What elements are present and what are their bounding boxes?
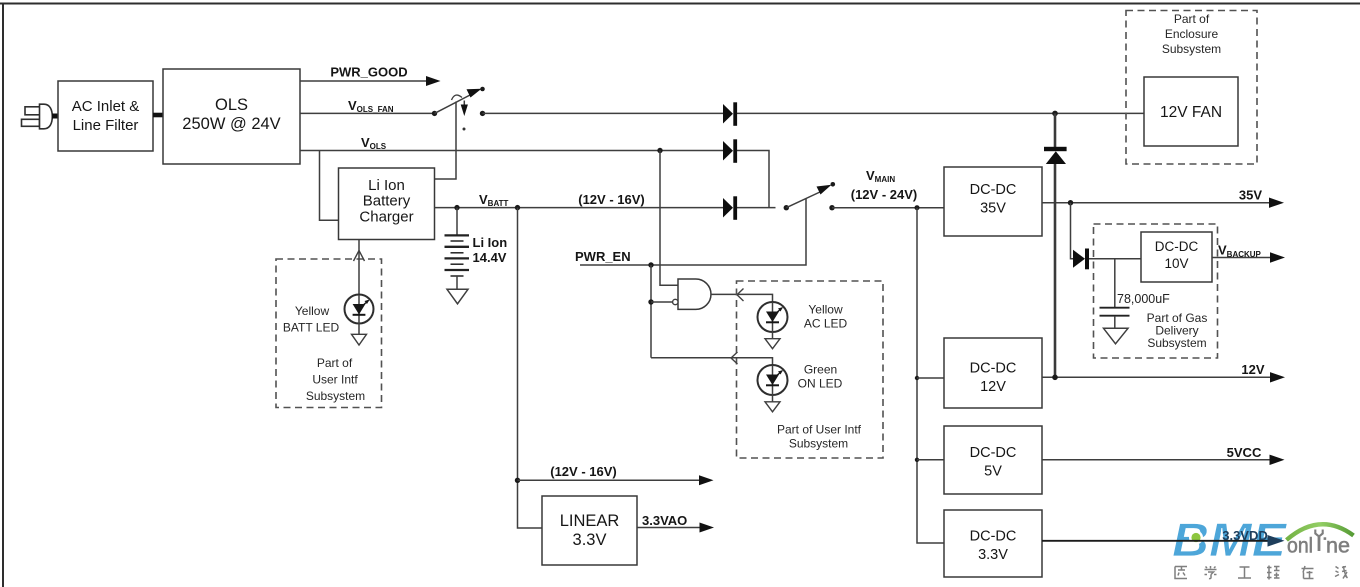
svg-text:PWR_GOOD: PWR_GOOD bbox=[330, 65, 407, 80]
switch S2 pivot node bbox=[784, 205, 789, 210]
node gate input 2 tap bbox=[648, 299, 653, 304]
inverter bubble on gate input 2 bbox=[673, 299, 678, 304]
svg-text:5VCC: 5VCC bbox=[1227, 445, 1262, 460]
svg-text:Charger: Charger bbox=[359, 209, 413, 226]
svg-text:14.4V: 14.4V bbox=[473, 250, 507, 265]
wire to gate input 2 bbox=[651, 301, 673, 303]
switch S1 blade bbox=[435, 95, 472, 114]
dashed box AC/ON LED Part of User Intf Subsystem bbox=[737, 281, 884, 458]
ground below battery bbox=[447, 289, 468, 304]
wire battery to ground bbox=[456, 276, 458, 289]
svg-text:(12V - 16V): (12V - 16V) bbox=[578, 192, 644, 207]
svg-text:LINEAR: LINEAR bbox=[560, 512, 620, 530]
svg-text:12V FAN: 12V FAN bbox=[1160, 104, 1222, 121]
wire charger to BATT LED bbox=[358, 240, 360, 295]
svg-text:35V: 35V bbox=[1239, 188, 1262, 203]
wire diode to DC-DC 10V bbox=[1089, 258, 1141, 260]
wire ON LED to ground bbox=[772, 395, 774, 402]
node PWR_EN tap bbox=[648, 262, 653, 267]
box DC-DC 5V bbox=[944, 426, 1042, 494]
box DC-DC 12V bbox=[944, 338, 1042, 408]
svg-text:3.3V: 3.3V bbox=[573, 531, 607, 549]
box AC Inlet & Line Filter bbox=[58, 81, 153, 151]
ground below ON LED bbox=[765, 402, 780, 412]
dashed box Yellow BATT LED / Part of User Intf Subsystem bbox=[276, 259, 382, 408]
node bus T bbox=[915, 205, 920, 210]
wire V_MAIN bbox=[832, 207, 944, 209]
direction arrow (down) at switch S1 bbox=[463, 101, 465, 106]
svg-text:PWR_EN: PWR_EN bbox=[575, 249, 631, 264]
svg-text:3.3VDD: 3.3VDD bbox=[1222, 528, 1268, 543]
battery BT1 Li Ion 14.4V bbox=[445, 208, 470, 276]
svg-text:AC Inlet &: AC Inlet & bbox=[72, 98, 140, 115]
svg-text:Part of: Part of bbox=[317, 356, 353, 370]
AC plug icon bbox=[22, 104, 53, 129]
svg-text:Subsystem: Subsystem bbox=[306, 389, 365, 403]
box 12V FAN bbox=[1144, 77, 1238, 146]
wire filter to OLS (thick) bbox=[153, 113, 163, 118]
speck node below arrow bbox=[463, 128, 466, 131]
svg-text:DC-DC: DC-DC bbox=[970, 445, 1017, 461]
svg-text:DC-DC: DC-DC bbox=[970, 361, 1017, 377]
svg-text:78,000uF: 78,000uF bbox=[1117, 292, 1170, 306]
wire gate output to Yellow AC LED bbox=[711, 294, 773, 302]
LED ON (green) bbox=[758, 365, 788, 395]
wire V_BATT down to LINEAR bbox=[518, 208, 543, 528]
wire 35V output bbox=[1042, 202, 1270, 204]
node bus 12V stub bbox=[915, 376, 919, 380]
diode D4 (vertical, to fan) bbox=[1044, 147, 1067, 164]
wire V_OLS to charger input bbox=[320, 151, 340, 221]
svg-text:10V: 10V bbox=[1164, 256, 1188, 271]
wire V_OLS bbox=[300, 151, 769, 208]
svg-text:Enclosure: Enclosure bbox=[1165, 27, 1219, 41]
node V_MAIN start bbox=[829, 205, 834, 210]
node bus 5V stub bbox=[915, 458, 919, 462]
node 35V backup tap bbox=[1068, 200, 1073, 205]
wire thick 12V-to-fan riser bbox=[1054, 113, 1057, 377]
wire 5VCC output bbox=[1042, 459, 1270, 461]
switch S2 blade bbox=[786, 192, 821, 208]
LED AC (yellow) bbox=[758, 302, 788, 332]
svg-text:Subsystem: Subsystem bbox=[789, 437, 848, 451]
chevron up into charger bbox=[354, 251, 365, 262]
svg-text:Subsystem: Subsystem bbox=[1147, 336, 1206, 350]
svg-text:12V: 12V bbox=[1241, 362, 1264, 377]
svg-text:User Intf: User Intf bbox=[312, 373, 358, 387]
wire AC LED to ground bbox=[772, 332, 774, 339]
wire 3.3VAO output bbox=[637, 527, 700, 529]
svg-text:DC-DC: DC-DC bbox=[970, 529, 1017, 545]
svg-text:250W @ 24V: 250W @ 24V bbox=[182, 115, 280, 133]
arrow PWR_GOOD bbox=[426, 76, 441, 86]
ground below capacitor bbox=[1104, 328, 1129, 344]
svg-text:Part of User Intf: Part of User Intf bbox=[777, 423, 862, 437]
node after switch S1 bbox=[480, 111, 485, 116]
svg-text:3.3VAO: 3.3VAO bbox=[642, 513, 687, 528]
wire stub to DC-DC 12V bbox=[917, 377, 944, 379]
box DC-DC 10V bbox=[1141, 232, 1212, 282]
svg-text:BATT LED: BATT LED bbox=[283, 321, 340, 335]
svg-text:12V: 12V bbox=[980, 379, 1006, 395]
node fan junction bbox=[1052, 111, 1058, 117]
chinese caption 医学工程在线 bbox=[1175, 566, 1348, 580]
node (12V-16V) branch bbox=[515, 478, 520, 483]
wire V_OLS_FAN to fan (through diode) bbox=[483, 112, 1145, 114]
wire PWR_EN bbox=[580, 199, 806, 266]
wire LED to ground bbox=[358, 324, 360, 335]
wire (12V - 16V) lower branch bbox=[518, 479, 701, 481]
LED BATT (yellow) bbox=[345, 295, 374, 324]
diode D3 bbox=[723, 196, 737, 220]
svg-text:Li Ion: Li Ion bbox=[368, 177, 405, 194]
svg-text:(12V - 16V): (12V - 16V) bbox=[550, 464, 616, 479]
dashed box Part of Enclosure Subsystem bbox=[1126, 11, 1257, 165]
wire stub to DC-DC 5V bbox=[917, 459, 944, 461]
capacitor C1 78,000uF bbox=[1100, 259, 1130, 328]
wire plug to line filter (thick cord) bbox=[52, 114, 59, 119]
diode D2 bbox=[723, 139, 737, 163]
svg-text:Battery: Battery bbox=[363, 193, 411, 210]
svg-text:AC LED: AC LED bbox=[804, 317, 848, 331]
svg-text:onl: onl bbox=[1287, 535, 1313, 558]
svg-text:Part of: Part of bbox=[1174, 12, 1210, 26]
svg-text:ne: ne bbox=[1326, 535, 1350, 558]
wire V_BATT bus bbox=[435, 207, 776, 209]
svg-text:3.3V: 3.3V bbox=[978, 547, 1008, 563]
ground below BATT LED bbox=[352, 334, 367, 345]
svg-text:Yellow: Yellow bbox=[808, 303, 843, 317]
svg-text:Green: Green bbox=[804, 363, 837, 377]
svg-text:DC-DC: DC-DC bbox=[1155, 239, 1199, 254]
wire 35V tap down to backup diode bbox=[1071, 203, 1074, 259]
box LINEAR 3.3V bbox=[542, 496, 637, 565]
switch S1 blade tip node bbox=[480, 87, 485, 92]
wire 12V output bbox=[1042, 376, 1271, 378]
wire blade to charger top input bbox=[434, 102, 456, 180]
diode D5 bbox=[1073, 249, 1089, 270]
wire V_BACKUP output bbox=[1212, 257, 1271, 259]
svg-text:35V: 35V bbox=[980, 201, 1006, 217]
wire PWR_EN branch to Green ON LED bbox=[651, 358, 773, 365]
box DC-DC 35V bbox=[944, 167, 1042, 236]
box Li Ion Battery Charger bbox=[339, 168, 435, 240]
switch S2 blade tip node bbox=[831, 182, 836, 187]
wire DC-DC input bus bbox=[917, 208, 944, 543]
wire V_OLS_FAN from OLS bbox=[300, 112, 434, 114]
ground below AC LED bbox=[765, 339, 780, 349]
node 12V fan tap bbox=[1052, 375, 1058, 381]
svg-text:Yellow: Yellow bbox=[295, 304, 330, 318]
wire V_OLS sense to AND gate input 1 bbox=[660, 151, 678, 286]
node LINEAR tap bbox=[515, 205, 520, 210]
curl tick where charger sense wire meets blade bbox=[452, 95, 463, 100]
svg-text:DC-DC: DC-DC bbox=[970, 182, 1017, 198]
chevron into subsystem (ON LED) bbox=[731, 352, 738, 364]
svg-text:5V: 5V bbox=[984, 464, 1002, 480]
svg-text:ON LED: ON LED bbox=[798, 377, 843, 391]
svg-text:OLS: OLS bbox=[215, 96, 248, 114]
diode D1 bbox=[723, 102, 737, 126]
svg-text:Subsystem: Subsystem bbox=[1162, 42, 1221, 56]
AND gate U1 bbox=[678, 279, 711, 309]
wire 3.3VDD output over logo bbox=[1042, 540, 1268, 542]
wire PWR_GOOD bbox=[300, 80, 427, 82]
svg-text:Li Ion: Li Ion bbox=[473, 235, 508, 250]
box OLS 250W @ 24V bbox=[163, 69, 300, 164]
node battery tap bbox=[454, 205, 459, 210]
switch S1 pivot node bbox=[432, 111, 437, 116]
svg-text:Line Filter: Line Filter bbox=[73, 117, 139, 134]
wire PWR_EN down to gate/LED bbox=[650, 265, 652, 358]
svg-text:(12V - 24V): (12V - 24V) bbox=[851, 187, 917, 202]
box DC-DC 3.3V bbox=[944, 510, 1042, 577]
node V_OLS sense tap bbox=[657, 148, 662, 153]
chevron into subsystem (AC LED) bbox=[737, 289, 744, 302]
dashed box Part of Gas Delivery Subsystem bbox=[1094, 224, 1218, 358]
